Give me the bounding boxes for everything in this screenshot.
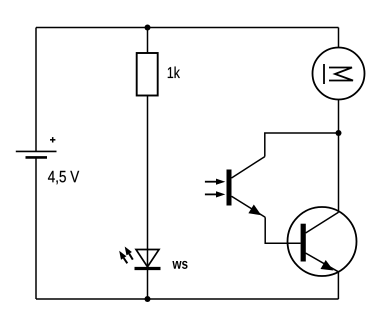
transistor collector lead bbox=[306, 212, 339, 233]
motor M1 circle bbox=[313, 48, 365, 100]
LED emission arrow lower bbox=[119, 251, 127, 263]
wire bottom horizontal bbox=[36, 298, 339, 300]
transistor base bar bbox=[301, 224, 306, 262]
wire node to transistor collector bbox=[338, 133, 340, 212]
LED cathode bar bbox=[135, 267, 161, 270]
LED emission arrow upper bbox=[125, 247, 133, 260]
label 1k bbox=[168, 67, 173, 78]
label ws bbox=[172, 261, 181, 269]
wire transistor emitter to bottom bbox=[337, 272, 339, 299]
node C (right junction) bbox=[336, 130, 342, 136]
wire left vertical upper bbox=[35, 28, 37, 152]
label 4,5 V bbox=[48, 171, 55, 182]
transistor Q1 circle bbox=[288, 207, 357, 276]
transistor emitter lead bbox=[306, 253, 339, 272]
wire top horizontal bbox=[36, 27, 339, 29]
wire motor top lead bbox=[338, 28, 340, 48]
LED D1 triangle bbox=[136, 250, 159, 267]
wire left vertical lower bbox=[35, 157, 37, 299]
phototransistor emitter arrowhead bbox=[248, 205, 261, 216]
wire LED to bottom node bbox=[147, 269, 149, 300]
wire resistor to LED bbox=[147, 95, 149, 269]
motor M glyph (rotated M) bbox=[324, 64, 353, 84]
light arrow upper into phototransistor bbox=[205, 179, 225, 185]
node B (bottom junction) bbox=[145, 296, 151, 302]
battery B1 plates bbox=[16, 151, 57, 157]
wire motor bottom lead to node bbox=[338, 100, 340, 134]
node A (top junction) bbox=[145, 25, 151, 31]
light arrow lower into phototransistor bbox=[205, 191, 225, 197]
wire resistor top lead bbox=[147, 28, 149, 54]
wire opto collector to node bbox=[265, 133, 339, 157]
phototransistor collector lead bbox=[232, 157, 265, 178]
transistor emitter arrowhead bbox=[321, 260, 334, 271]
wire opto emitter to transistor base bbox=[265, 217, 300, 243]
phototransistor emitter lead bbox=[232, 196, 266, 217]
phototransistor base bar bbox=[227, 170, 232, 206]
resistor R1 bbox=[137, 53, 158, 96]
battery plus sign bbox=[50, 137, 55, 142]
